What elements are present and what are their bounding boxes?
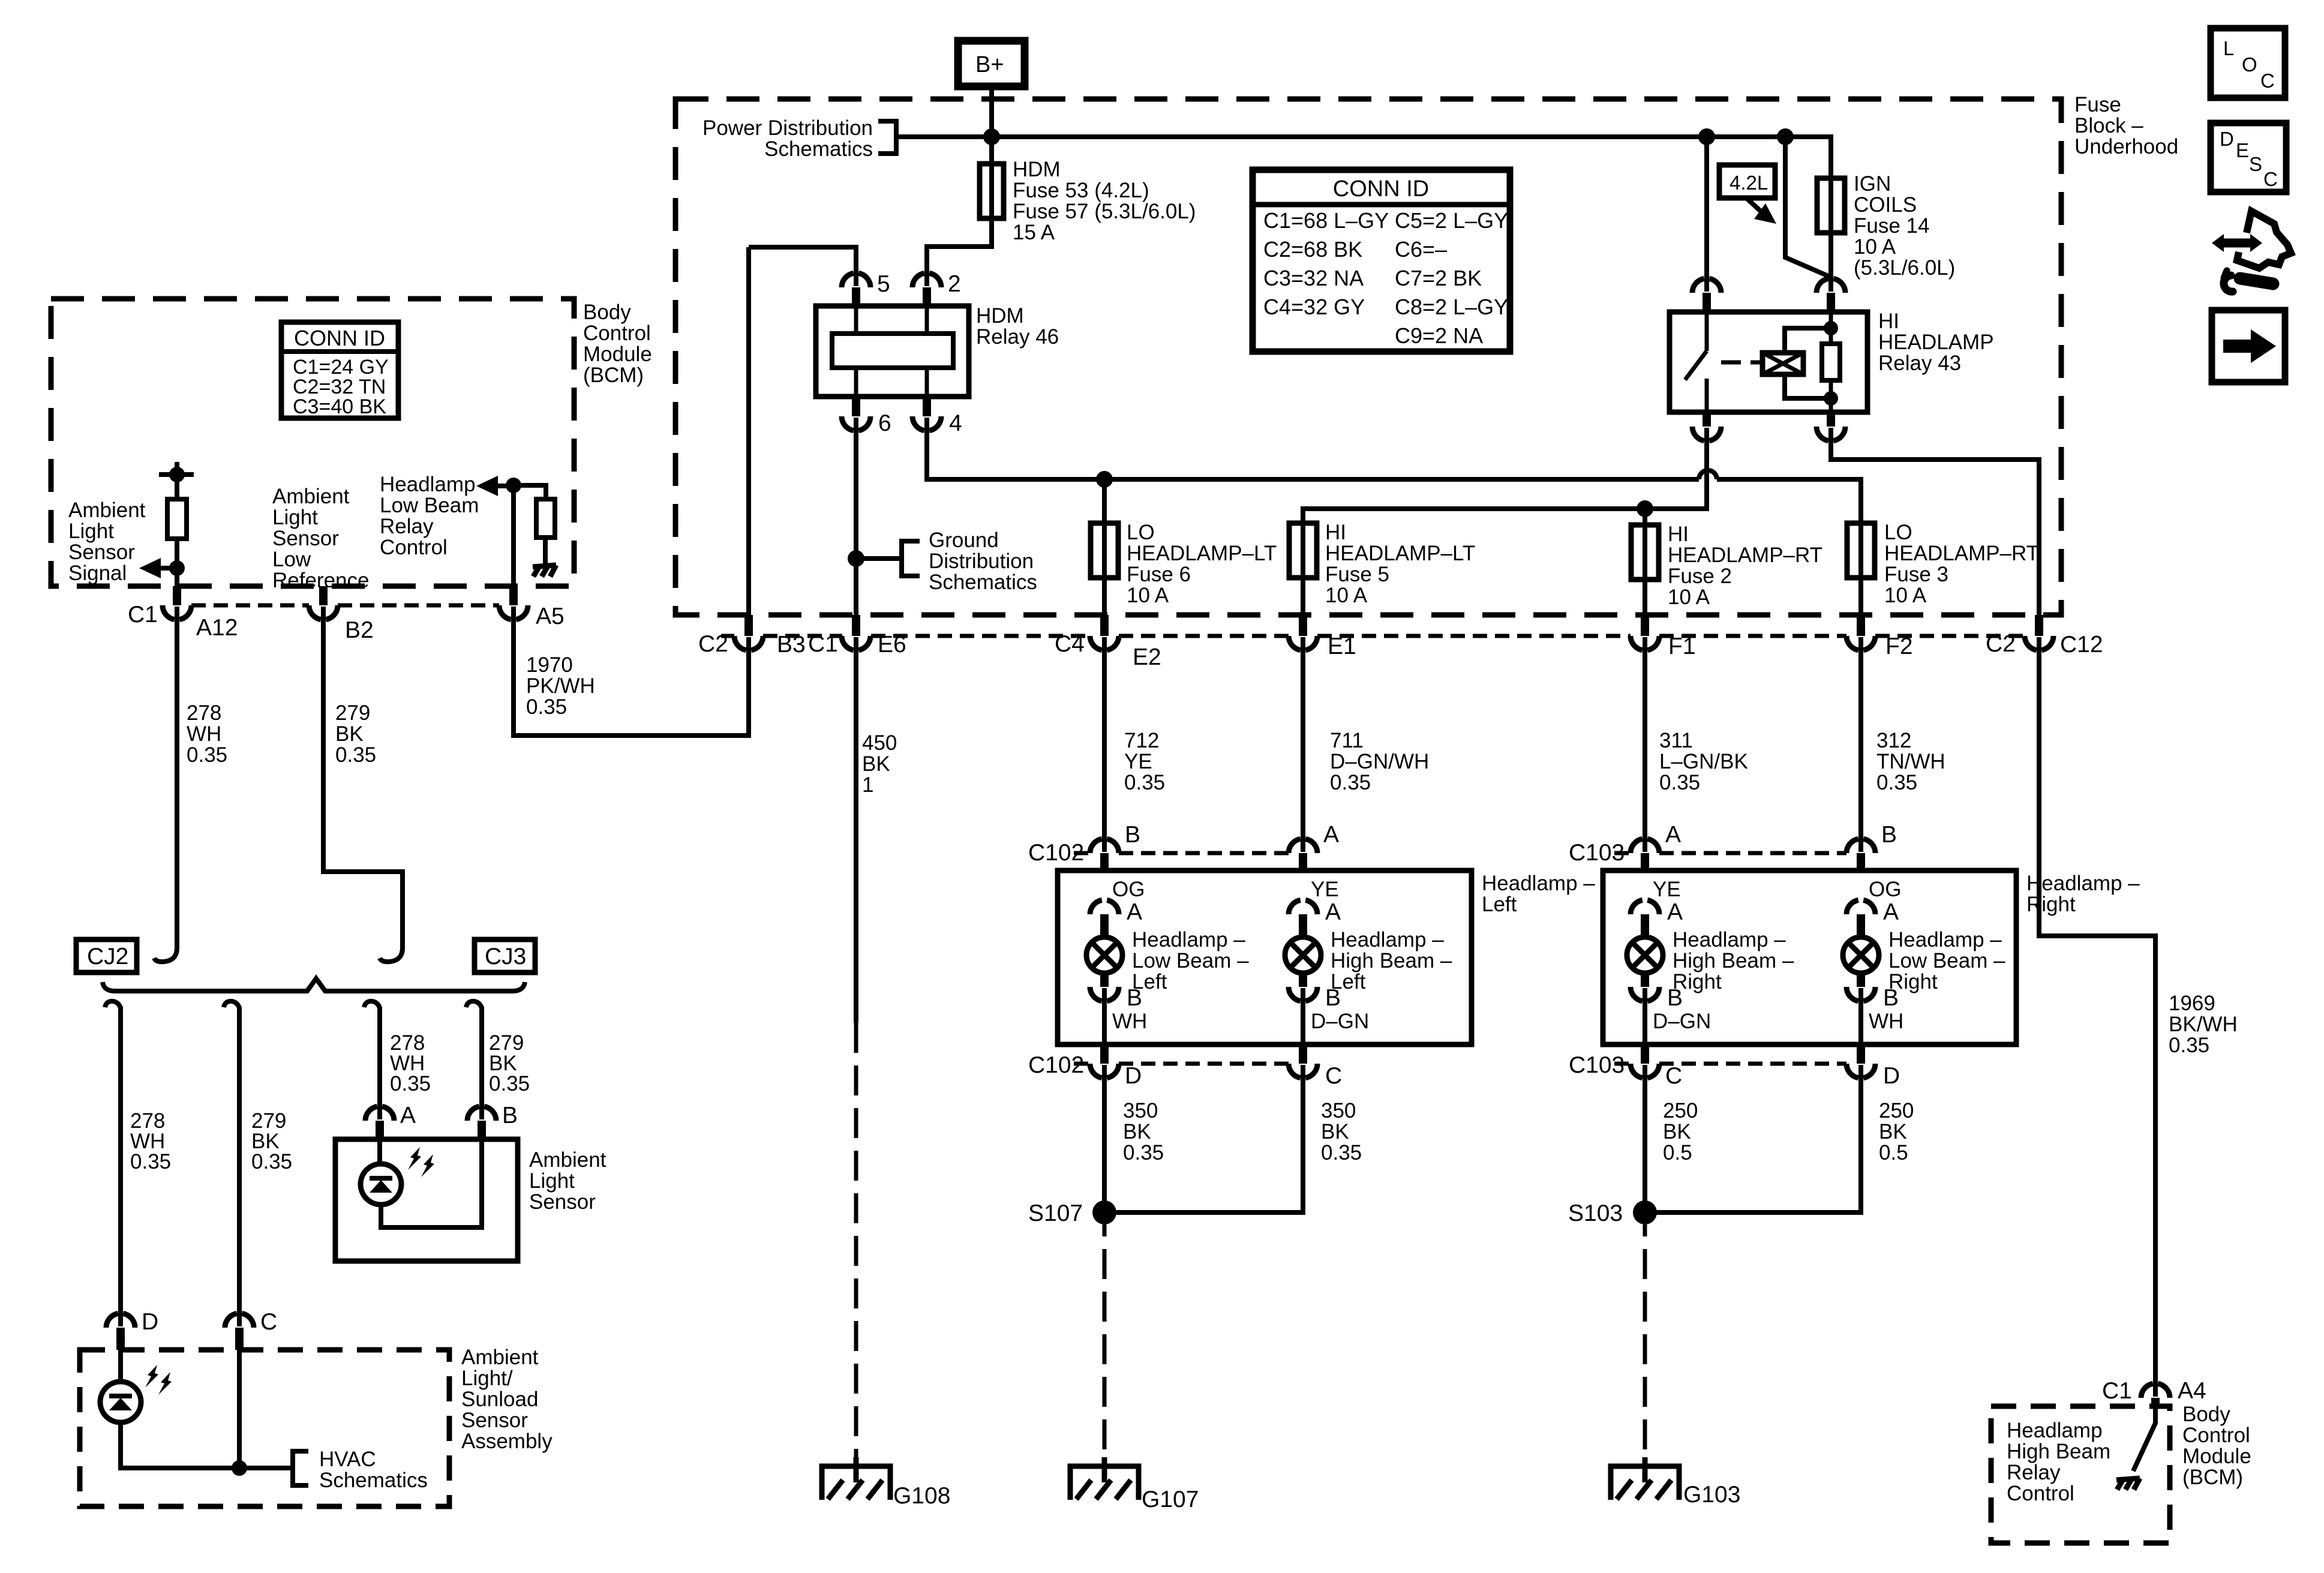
connector lamp B low-left xyxy=(1090,987,1119,1001)
svg-text:WH: WH xyxy=(1869,1010,1903,1033)
ground G107 xyxy=(1070,1457,1139,1500)
svg-text:Light: Light xyxy=(68,520,114,543)
svg-text:Right: Right xyxy=(2026,893,2076,916)
ambient light/sunload sensor assembly dashed box xyxy=(80,1350,449,1506)
fuse LO HEADLAMP-LT Fuse 6 xyxy=(1091,523,1118,578)
svg-text:Left: Left xyxy=(1482,893,1517,916)
svg-text:Schematics: Schematics xyxy=(929,571,1037,594)
svg-text:Body: Body xyxy=(583,301,631,324)
node 4.2L bypass junction xyxy=(1777,128,1794,145)
svg-text:D: D xyxy=(2220,128,2234,150)
connector lamp A high-right xyxy=(1631,900,1659,914)
svg-text:312: 312 xyxy=(1876,729,1911,752)
svg-text:HI: HI xyxy=(1325,521,1346,544)
wire 1969 BK/WH from C12 to BCM A4 xyxy=(2039,637,2155,1397)
svg-text:HI: HI xyxy=(1878,310,1899,333)
svg-text:10 A: 10 A xyxy=(1854,235,1896,259)
connector C103 B xyxy=(1846,839,1875,853)
connector E1 xyxy=(1289,636,1317,650)
box CJ3 xyxy=(475,939,535,972)
fuse HDM Fuse 53 xyxy=(980,164,1004,218)
svg-text:YE: YE xyxy=(1311,878,1339,901)
ground G103 xyxy=(1611,1457,1679,1500)
svg-text:C4=32 GY: C4=32 GY xyxy=(1263,295,1365,319)
wire A12 drop inside BCM xyxy=(175,568,179,586)
svg-text:S: S xyxy=(2249,153,2262,175)
relay coil box with X xyxy=(1762,353,1803,374)
connector lamp A low-left xyxy=(1090,900,1119,914)
svg-text:HEADLAMP–LT: HEADLAMP–LT xyxy=(1325,542,1475,565)
svg-text:Left: Left xyxy=(1331,970,1366,993)
wire end hook 278 xyxy=(154,948,177,962)
svg-text:HEADLAMP–LT: HEADLAMP–LT xyxy=(1127,542,1277,565)
svg-text:Headlamp –: Headlamp – xyxy=(1132,928,1245,951)
svg-text:O: O xyxy=(2242,53,2257,76)
ground chassis BCM low beam driver xyxy=(533,565,556,577)
connector F2 xyxy=(1846,636,1875,650)
svg-text:BK: BK xyxy=(1879,1120,1907,1143)
svg-text:Sunload: Sunload xyxy=(461,1388,538,1411)
svg-text:A4: A4 xyxy=(2178,1378,2206,1404)
wire 278 WH from A12 to CJ2 splice xyxy=(175,607,179,950)
wire 350 BK from C102 D to S107 xyxy=(1102,1065,1107,1212)
svg-text:PK/WH: PK/WH xyxy=(526,674,595,698)
icon LOC box xyxy=(2211,28,2285,98)
connector C102 D xyxy=(1090,1064,1119,1078)
svg-text:S103: S103 xyxy=(1568,1200,1623,1226)
wire bus down to fuse 14 xyxy=(1828,137,1833,178)
svg-text:(BCM): (BCM) xyxy=(2182,1466,2243,1489)
svg-text:C: C xyxy=(2260,70,2275,92)
svg-text:0.35: 0.35 xyxy=(251,1150,292,1173)
connector lamp B high-left xyxy=(1289,987,1317,1001)
svg-text:BK: BK xyxy=(1123,1120,1151,1143)
icon wrench xyxy=(2240,278,2273,284)
svg-text:E1: E1 xyxy=(1328,634,1356,659)
svg-text:Ambient: Ambient xyxy=(272,485,350,508)
svg-text:C3=32 NA: C3=32 NA xyxy=(1263,266,1364,290)
svg-text:YE: YE xyxy=(1124,750,1152,773)
table CONN ID BCM xyxy=(281,322,398,418)
svg-text:Low Beam: Low Beam xyxy=(380,494,479,517)
svg-text:B2: B2 xyxy=(345,617,374,643)
svg-text:F1: F1 xyxy=(1668,634,1696,659)
svg-text:C1: C1 xyxy=(808,631,838,657)
svg-text:D–GN/WH: D–GN/WH xyxy=(1330,750,1429,773)
node HVAC splice xyxy=(232,1460,247,1476)
wire relay coil return to C12 xyxy=(1831,428,2039,615)
svg-text:G103: G103 xyxy=(1683,1482,1740,1508)
svg-text:711: 711 xyxy=(1330,729,1364,752)
wire pin6 to E6 connector xyxy=(854,418,858,615)
svg-text:0.35: 0.35 xyxy=(1123,1141,1164,1164)
svg-text:Light/: Light/ xyxy=(461,1367,513,1390)
svg-text:D–GN: D–GN xyxy=(1653,1010,1711,1033)
wire A5 drop inside BCM xyxy=(511,485,516,586)
svg-text:10 A: 10 A xyxy=(1325,584,1368,607)
svg-text:C6=–: C6=– xyxy=(1395,237,1447,262)
wire 450 BK from E6 to G108 xyxy=(854,637,858,1023)
svg-text:0.35: 0.35 xyxy=(1876,771,1917,794)
svg-text:C1: C1 xyxy=(2102,1378,2132,1404)
svg-text:0.5: 0.5 xyxy=(1879,1141,1908,1164)
wire start hook D xyxy=(105,1001,121,1008)
connector D xyxy=(106,1313,135,1328)
svg-text:D–GN: D–GN xyxy=(1311,1010,1369,1033)
svg-text:C103: C103 xyxy=(1569,1052,1625,1078)
svg-text:Headlamp: Headlamp xyxy=(2007,1419,2103,1442)
resistor ambient light sensor pull-up xyxy=(159,462,194,499)
pin 2 connector xyxy=(912,273,941,287)
svg-text:Fuse 6: Fuse 6 xyxy=(1127,563,1191,586)
svg-text:Body: Body xyxy=(2182,1403,2230,1426)
svg-text:G108: G108 xyxy=(893,1483,950,1509)
fuse HI HEADLAMP-LT Fuse 5 xyxy=(1289,523,1317,578)
wire fuse53 to relay pin 2 xyxy=(927,218,992,286)
svg-text:OG: OG xyxy=(1869,878,1901,901)
connector C1/A4 xyxy=(2141,1383,2170,1398)
svg-text:High Beam –: High Beam – xyxy=(1673,949,1794,972)
icon DESC box xyxy=(2211,123,2286,192)
svg-text:B: B xyxy=(502,1103,518,1128)
wire 1970 PK/WH from A5 to B3 xyxy=(514,607,749,736)
ground G108 xyxy=(822,1457,890,1500)
arrow 4.2L pointer xyxy=(1746,198,1761,212)
svg-text:C2: C2 xyxy=(698,631,728,657)
svg-text:350: 350 xyxy=(1123,1099,1158,1122)
svg-text:C: C xyxy=(260,1309,277,1335)
connector C4/E2 xyxy=(1090,636,1119,650)
pin bottom-left connector xyxy=(1692,427,1721,441)
ground chassis BCM high beam driver xyxy=(2116,1478,2140,1490)
connector A sensor xyxy=(365,1106,394,1121)
connector C103 C xyxy=(1631,1064,1659,1078)
connector C xyxy=(225,1313,254,1328)
svg-text:LO: LO xyxy=(1127,521,1155,544)
svg-text:TN/WH: TN/WH xyxy=(1876,750,1945,773)
svg-text:Sensor: Sensor xyxy=(272,527,339,550)
svg-text:CJ2: CJ2 xyxy=(87,944,128,969)
pin top-right connector xyxy=(1816,278,1845,293)
wire start hook C xyxy=(224,1001,239,1008)
wire 279 BK from B2 to CJ3 splice xyxy=(323,607,403,950)
svg-text:Relay: Relay xyxy=(380,515,434,538)
pin 6 connector xyxy=(842,416,870,431)
svg-text:4.2L: 4.2L xyxy=(1730,172,1768,194)
svg-text:Sensor: Sensor xyxy=(68,541,135,564)
wire harness dotted line C102 top xyxy=(1074,851,1090,855)
svg-text:Right: Right xyxy=(1888,970,1938,993)
svg-text:Signal: Signal xyxy=(68,562,127,585)
relay switch xyxy=(1685,312,1707,412)
brace splice bus xyxy=(103,978,525,991)
svg-text:Low: Low xyxy=(272,548,311,571)
svg-text:Fuse 53 (4.2L): Fuse 53 (4.2L) xyxy=(1013,179,1149,202)
svg-text:2: 2 xyxy=(948,271,961,297)
svg-text:A: A xyxy=(1325,899,1341,925)
pin 5 connector xyxy=(842,273,870,287)
wire 279 BK to C xyxy=(237,1007,242,1326)
connector C102 A xyxy=(1289,839,1317,853)
pin 4 connector xyxy=(912,416,941,431)
svg-text:CONN ID: CONN ID xyxy=(1333,176,1429,202)
svg-text:G107: G107 xyxy=(1142,1487,1199,1512)
B+ power symbol box xyxy=(958,41,1025,86)
svg-text:Sensor: Sensor xyxy=(529,1190,596,1214)
svg-text:HDM: HDM xyxy=(976,304,1024,328)
icon part with double arrow xyxy=(2212,234,2262,252)
connector B sensor xyxy=(467,1106,496,1121)
node B+ bus junction xyxy=(983,128,1000,145)
wire D through sensor to HVAC xyxy=(121,1350,290,1468)
svg-text:C102: C102 xyxy=(1028,840,1084,866)
wire 312 TN/WH fuse 3 to C103 B xyxy=(1858,637,1863,852)
wire S103 to ground G103 xyxy=(1643,1224,1647,1466)
node ground distribution tap xyxy=(848,550,864,567)
svg-text:A: A xyxy=(1127,899,1142,925)
svg-text:Right: Right xyxy=(1673,970,1722,993)
svg-text:D: D xyxy=(1883,1063,1900,1089)
svg-text:Schematics: Schematics xyxy=(319,1469,428,1492)
wire 278 WH to D xyxy=(118,1007,123,1326)
svg-text:S107: S107 xyxy=(1028,1200,1083,1226)
svg-text:D: D xyxy=(142,1309,158,1335)
pin top-left connector xyxy=(1692,278,1721,293)
svg-text:B3: B3 xyxy=(777,632,806,658)
svg-text:Assembly: Assembly xyxy=(461,1430,553,1453)
wire end hook 279 xyxy=(380,948,403,962)
svg-text:A: A xyxy=(1323,822,1339,848)
wire 250 BK from C103 C to S103 xyxy=(1643,1065,1647,1212)
wire harness dotted line C103 top xyxy=(1614,851,1631,855)
svg-text:D: D xyxy=(1125,1063,1142,1089)
svg-text:450: 450 xyxy=(862,731,897,755)
box 4.2L callout xyxy=(1719,165,1775,198)
bulb headlamp high beam right xyxy=(1627,937,1663,973)
node coil top xyxy=(1824,321,1838,335)
bulb headlamp low beam left xyxy=(1086,937,1122,973)
svg-text:B: B xyxy=(1881,822,1897,848)
svg-text:Low Beam –: Low Beam – xyxy=(1888,949,2005,972)
wire HI bus relay output to fuses 5 and 2 xyxy=(1303,428,1707,523)
connector C1/A12 xyxy=(163,605,191,620)
resistor in relay xyxy=(1822,344,1840,380)
svg-text:C102: C102 xyxy=(1028,1052,1084,1078)
wire 311 L-GN/BK fuse 2 to C103 A xyxy=(1643,637,1647,852)
svg-text:C2: C2 xyxy=(1986,631,2016,657)
svg-text:LO: LO xyxy=(1884,521,1912,544)
wire 4.2L bypass xyxy=(1785,137,1831,277)
wire bus to HI relay left pin xyxy=(1704,137,1709,292)
wire 350 BK from C102 C to S107 xyxy=(1104,1065,1303,1212)
svg-text:HEADLAMP–RT: HEADLAMP–RT xyxy=(1668,544,1822,567)
svg-text:250: 250 xyxy=(1663,1099,1698,1122)
light arrows photodiode xyxy=(408,1147,421,1170)
svg-text:0.35: 0.35 xyxy=(489,1072,530,1095)
connector C2/C12 xyxy=(2025,636,2053,650)
node HI relay feed junction xyxy=(1698,128,1715,145)
svg-text:Control: Control xyxy=(2007,1482,2074,1505)
arrow headlamp low beam relay control xyxy=(496,484,514,488)
arrow ambient light sensor signal xyxy=(157,566,177,571)
bulb headlamp high beam left xyxy=(1285,937,1321,973)
bracket HVAC Schematics xyxy=(293,1451,308,1485)
svg-text:C4: C4 xyxy=(1055,631,1085,657)
svg-text:1970: 1970 xyxy=(526,653,573,677)
svg-text:0.35: 0.35 xyxy=(335,743,376,767)
svg-text:Module: Module xyxy=(2182,1445,2251,1468)
svg-text:C: C xyxy=(1325,1063,1342,1089)
svg-text:Relay 43: Relay 43 xyxy=(1878,352,1961,375)
svg-text:F2: F2 xyxy=(1885,634,1913,659)
svg-text:Ambient: Ambient xyxy=(68,499,146,522)
svg-text:B+: B+ xyxy=(975,52,1004,77)
box headlamp right xyxy=(1603,870,2016,1044)
svg-text:Headlamp: Headlamp xyxy=(380,473,476,496)
bulb headlamp low beam right xyxy=(1843,937,1879,973)
svg-text:Headlamp –: Headlamp – xyxy=(2026,872,2140,895)
svg-text:BK: BK xyxy=(1663,1120,1691,1143)
svg-text:C: C xyxy=(1665,1063,1682,1089)
svg-text:6: 6 xyxy=(878,410,891,436)
svg-text:C103: C103 xyxy=(1569,840,1625,866)
svg-text:C1=68 L–GY: C1=68 L–GY xyxy=(1263,208,1389,233)
wire pin4 LO bus to fuses 6 and 3 xyxy=(927,418,1861,523)
svg-text:0.35: 0.35 xyxy=(390,1072,431,1095)
wire hop over relay wire xyxy=(1699,470,1717,479)
svg-text:CJ3: CJ3 xyxy=(485,944,526,969)
box headlamp left xyxy=(1058,870,1472,1044)
svg-text:Underhood: Underhood xyxy=(2074,135,2178,158)
svg-text:Light: Light xyxy=(529,1169,575,1193)
pin bottom-right connector xyxy=(1816,427,1845,441)
fuse IGN COILS Fuse 14 xyxy=(1817,178,1845,233)
svg-text:Control: Control xyxy=(2182,1424,2250,1447)
svg-text:Fuse 2: Fuse 2 xyxy=(1668,565,1732,588)
wire power distribution bus xyxy=(896,134,1833,139)
svg-text:A5: A5 xyxy=(536,604,565,629)
svg-text:C2=68 BK: C2=68 BK xyxy=(1263,237,1362,262)
svg-text:Low Beam –: Low Beam – xyxy=(1132,949,1249,972)
svg-text:High Beam: High Beam xyxy=(2007,1440,2110,1463)
svg-text:Relay 46: Relay 46 xyxy=(976,325,1059,349)
photodiode ambient light sensor xyxy=(361,1164,401,1205)
wire fuse 14 down to relay pin xyxy=(1828,233,1833,292)
svg-text:A: A xyxy=(1883,899,1899,925)
svg-text:E: E xyxy=(2236,139,2249,161)
connector C103 D xyxy=(1846,1064,1875,1078)
svg-text:5: 5 xyxy=(877,271,890,297)
connector B2 xyxy=(309,605,338,620)
svg-text:HEADLAMP: HEADLAMP xyxy=(1878,331,1994,354)
svg-text:0.35: 0.35 xyxy=(2169,1034,2209,1057)
svg-text:4: 4 xyxy=(949,410,962,436)
svg-text:0.35: 0.35 xyxy=(187,743,227,767)
svg-text:OG: OG xyxy=(1112,878,1145,901)
body control module dashed box xyxy=(51,299,574,586)
svg-text:Ambient: Ambient xyxy=(529,1148,606,1172)
svg-text:L–GN/BK: L–GN/BK xyxy=(1659,750,1748,773)
photodiode sunload sensor xyxy=(100,1382,141,1422)
svg-text:1: 1 xyxy=(862,773,873,797)
svg-text:Headlamp –: Headlamp – xyxy=(1673,928,1786,951)
resistor headlamp low beam relay control xyxy=(514,485,546,499)
svg-text:350: 350 xyxy=(1321,1099,1356,1122)
svg-text:278: 278 xyxy=(187,701,221,725)
wire B+ down to bus and HDM fuse xyxy=(989,86,994,164)
fuse LO HEADLAMP-RT Fuse 3 xyxy=(1847,523,1875,578)
svg-text:Fuse 5: Fuse 5 xyxy=(1325,563,1389,586)
wire 711 D-GN/WH fuse 5 to C102 A xyxy=(1301,637,1305,852)
svg-text:A: A xyxy=(400,1103,416,1128)
svg-text:C7=2 BK: C7=2 BK xyxy=(1395,266,1482,290)
wire harness dotted line C103 bottom xyxy=(1614,1062,1631,1066)
wire pin5 riser to B3 xyxy=(746,247,751,615)
svg-text:YE: YE xyxy=(1653,878,1681,901)
svg-text:311: 311 xyxy=(1659,729,1693,752)
svg-text:E6: E6 xyxy=(878,632,906,658)
svg-text:HEADLAMP–RT: HEADLAMP–RT xyxy=(1884,542,2039,565)
relay actuator dashes xyxy=(1721,361,1762,365)
node HI bus to fuse 2 xyxy=(1637,500,1653,517)
svg-text:Headlamp –: Headlamp – xyxy=(1888,928,2002,951)
svg-text:15 A: 15 A xyxy=(1013,221,1055,244)
connector C102 C xyxy=(1289,1064,1317,1078)
wire bus to relay pin 5 xyxy=(749,247,856,286)
connector lamp B high-right xyxy=(1631,987,1659,1001)
svg-text:High Beam –: High Beam – xyxy=(1331,949,1452,972)
wire harness dotted line fuse block row xyxy=(721,634,734,638)
svg-text:C3=40 BK: C3=40 BK xyxy=(293,395,386,418)
connector lamp A low-right xyxy=(1846,900,1875,914)
svg-text:279: 279 xyxy=(335,701,370,725)
node S107 splice xyxy=(1092,1200,1116,1224)
wire harness dotted line BCM row xyxy=(191,604,309,608)
svg-text:C9=2 NA: C9=2 NA xyxy=(1395,323,1483,348)
svg-text:Schematics: Schematics xyxy=(764,137,873,161)
svg-text:Left: Left xyxy=(1132,970,1167,993)
fuse HI HEADLAMP-RT Fuse 2 xyxy=(1631,525,1659,580)
svg-text:0.35: 0.35 xyxy=(1124,771,1165,794)
svg-text:Headlamp –: Headlamp – xyxy=(1331,928,1444,951)
svg-text:C5=2 L–GY: C5=2 L–GY xyxy=(1395,208,1508,233)
svg-text:Relay: Relay xyxy=(2007,1461,2061,1484)
svg-text:Fuse 57 (5.3L/6.0L): Fuse 57 (5.3L/6.0L) xyxy=(1013,200,1196,223)
svg-text:Power Distribution: Power Distribution xyxy=(702,116,873,140)
svg-text:Distribution: Distribution xyxy=(929,550,1034,573)
wire S107 to ground G107 xyxy=(1103,1224,1107,1466)
wire start hook A xyxy=(364,1001,380,1008)
wire 279 BK to sensor B xyxy=(479,1007,484,1119)
svg-text:C8=2 L–GY: C8=2 L–GY xyxy=(1395,295,1508,319)
node coil bottom xyxy=(1824,391,1838,406)
connector C103 A xyxy=(1631,839,1659,853)
svg-text:BK/WH: BK/WH xyxy=(2169,1013,2238,1036)
svg-text:BK: BK xyxy=(335,722,364,746)
relay HDM Relay 46 box xyxy=(816,306,969,397)
svg-text:10 A: 10 A xyxy=(1127,584,1169,607)
svg-text:WH: WH xyxy=(187,722,221,746)
svg-text:0.35: 0.35 xyxy=(1321,1141,1362,1164)
relay HI HEADLAMP Relay 43 box xyxy=(1670,312,1867,412)
svg-text:A: A xyxy=(1667,899,1683,925)
wire C down to HVAC junction xyxy=(237,1350,242,1468)
svg-text:E2: E2 xyxy=(1133,644,1161,670)
wire coil parallel loop xyxy=(1785,328,1833,398)
connector F1 xyxy=(1631,636,1659,650)
svg-text:A: A xyxy=(1665,822,1681,848)
svg-text:0.5: 0.5 xyxy=(1663,1141,1692,1164)
